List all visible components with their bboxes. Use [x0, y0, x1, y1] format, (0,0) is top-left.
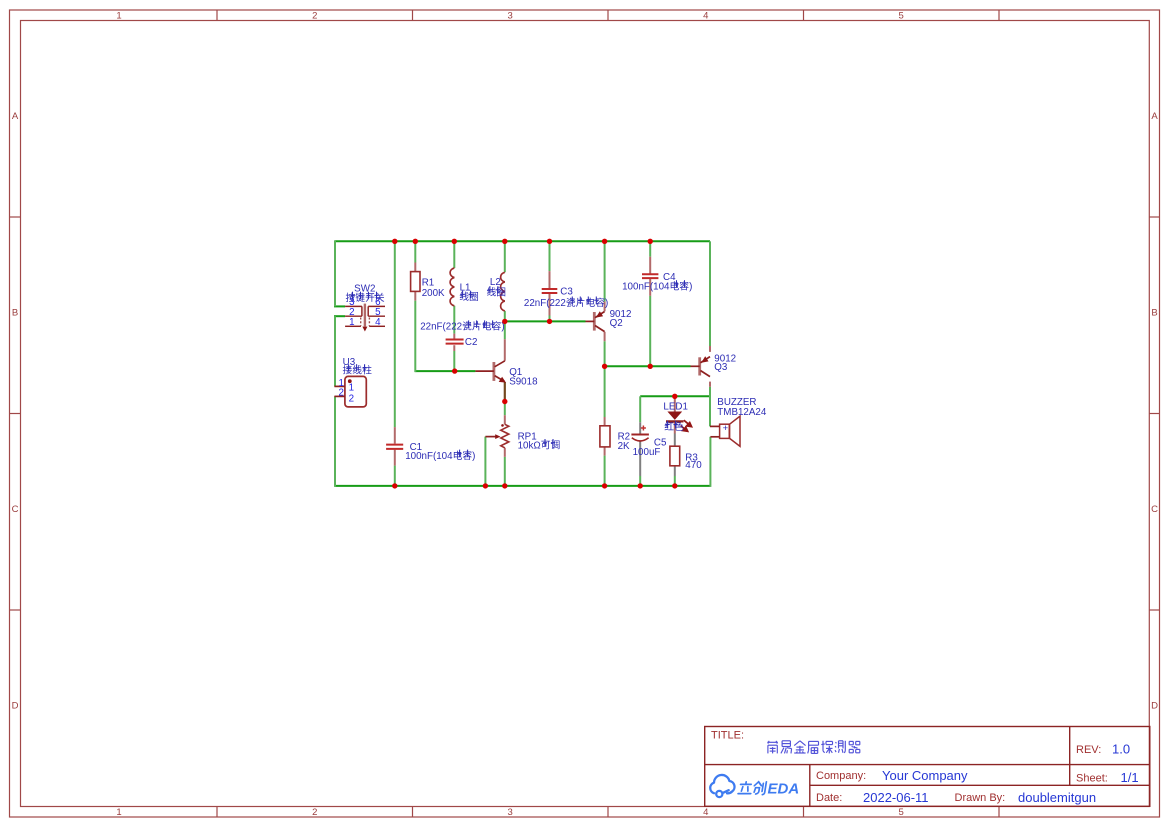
svg-text:TITLE:: TITLE: — [711, 730, 744, 742]
svg-text:C2: C2 — [465, 337, 478, 348]
svg-text:A: A — [12, 111, 19, 122]
svg-text:S9018: S9018 — [509, 376, 538, 387]
svg-text:B: B — [12, 308, 18, 319]
potentiometer RP1 — [501, 424, 509, 448]
svg-text:Q2: Q2 — [610, 318, 623, 329]
capacitor C4 — [642, 274, 658, 278]
pin R2 top — [604, 417, 606, 426]
svg-text:Company:: Company: — [816, 770, 866, 782]
svg-text:Q3: Q3 — [714, 362, 728, 373]
node LED top — [672, 394, 677, 399]
wire C4 top — [649, 241, 651, 256]
pin Q3 collector — [709, 382, 711, 387]
pin Q2 collector — [604, 332, 606, 341]
svg-text:A: A — [1151, 111, 1158, 122]
svg-text:470: 470 — [685, 460, 702, 471]
wire C5 top — [639, 396, 641, 422]
svg-text:D: D — [1151, 701, 1158, 712]
pin C3 top — [549, 271, 551, 288]
inductor L1 — [450, 268, 454, 306]
wire SW2 pin3 stub — [334, 305, 345, 307]
node bottom rail C5 — [638, 483, 643, 488]
buzzer BUZZER TMB12A24 — [720, 416, 740, 446]
svg-text:3: 3 — [508, 807, 513, 818]
svg-text:doublemitgun: doublemitgun — [1018, 790, 1096, 805]
svg-text:1: 1 — [116, 807, 121, 818]
node L2 bottom — [502, 319, 507, 324]
svg-text:LED1: LED1 — [663, 402, 688, 413]
pin R1 top — [414, 263, 416, 272]
wire Q2 collector down — [604, 341, 606, 366]
pin C3 bottom — [549, 294, 551, 316]
pin C1 bottom — [394, 450, 396, 466]
svg-text:Sheet:: Sheet: — [1076, 773, 1108, 785]
resistor R3 — [670, 446, 680, 466]
node top rail C4 — [648, 239, 653, 244]
svg-text:200K: 200K — [422, 288, 445, 299]
wire right rail to Q3 — [709, 241, 711, 346]
terminal U3 — [345, 376, 366, 407]
svg-text:4: 4 — [703, 807, 708, 818]
node top rail L1 — [452, 239, 457, 244]
svg-text:+: + — [723, 423, 729, 434]
svg-text:2: 2 — [312, 807, 317, 818]
pin R1 bottom — [414, 291, 416, 300]
wire L2 bottom node — [504, 311, 506, 339]
svg-text:C: C — [1151, 504, 1158, 515]
svg-text:3: 3 — [508, 11, 513, 22]
node bottom rail C1 — [392, 483, 397, 488]
switch SW2 — [345, 306, 385, 326]
svg-text:2: 2 — [312, 11, 317, 22]
capacitor C2 — [446, 340, 464, 344]
LED LED1 — [667, 412, 682, 420]
inductor L2 — [501, 272, 505, 311]
wire L1 to C2 — [453, 306, 455, 334]
svg-text:5: 5 — [899, 11, 904, 22]
pin RP1 bottom — [504, 448, 506, 457]
wire C2 to base node — [453, 351, 455, 371]
pin C5 bottom gray — [639, 442, 641, 477]
node bottom rail R2 — [602, 483, 607, 488]
svg-text:1: 1 — [349, 317, 354, 328]
wire SW2 pin2 stub — [334, 315, 345, 317]
wire C3 bottom — [549, 316, 551, 322]
svg-text:100uF: 100uF — [633, 447, 661, 458]
node C3 bottom — [547, 319, 552, 324]
junction dots — [392, 239, 677, 489]
wire R2 bottom — [604, 456, 606, 486]
node bottom rail R3 — [672, 483, 677, 488]
capacitor C1 — [386, 445, 403, 449]
wire left rail upper — [334, 240, 336, 306]
title block — [705, 727, 1150, 807]
svg-text:2: 2 — [349, 393, 354, 404]
svg-text:1/1: 1/1 — [1121, 770, 1139, 785]
pin Q3 emitter — [709, 346, 711, 352]
node Q1 base — [452, 368, 457, 373]
wire U3 to bottom rail — [334, 396, 336, 487]
wire L2 top — [504, 241, 506, 272]
wire bottom rail — [335, 485, 710, 487]
pin C4 top — [649, 257, 651, 274]
svg-text:22nF(222瓷片电容): 22nF(222瓷片电容) — [524, 296, 608, 309]
wire SW2 to U3 — [334, 316, 336, 386]
svg-text:R1: R1 — [422, 278, 435, 289]
svg-text:C: C — [12, 504, 19, 515]
wire Q1 base — [415, 370, 475, 372]
pin C2 top — [453, 334, 455, 340]
wire RP1 to bottom rail — [504, 457, 506, 486]
node top rail L2 — [502, 239, 507, 244]
wire Q2 collector to Q3 base — [605, 365, 691, 367]
CJK glyph densify strokes — [347, 280, 687, 457]
wire C1 branch upper — [394, 241, 396, 427]
pin LED1 cathode to R3 (gray) — [640, 422, 675, 476]
node top rail C1 — [392, 239, 397, 244]
node top rail Q2 — [602, 239, 607, 244]
svg-text:TMB12A24: TMB12A24 — [717, 407, 767, 418]
wire Q1 emitter to RP1 — [504, 402, 506, 415]
svg-text:D: D — [12, 701, 19, 712]
svg-text:B: B — [1151, 308, 1157, 319]
wire C1 branch lower — [394, 466, 396, 486]
svg-text:1.0: 1.0 — [1112, 742, 1130, 757]
transistor Q2 9012 — [586, 311, 605, 331]
pin Q1 collector — [504, 339, 506, 361]
wire R3 bottom — [674, 476, 676, 486]
node top rail C3 — [547, 239, 552, 244]
node bottom rail RP1 — [502, 483, 507, 488]
svg-text:5: 5 — [899, 807, 904, 818]
svg-text:Date:: Date: — [816, 792, 842, 804]
svg-text:Your Company: Your Company — [882, 768, 968, 783]
capacitor C3 — [542, 289, 558, 293]
wire Q2 emitter top — [604, 241, 606, 301]
node bottom rail wiper — [483, 483, 488, 488]
transistor Q1 S9018 — [475, 361, 506, 383]
pin C4 bottom — [649, 279, 651, 296]
svg-text:EDA: EDA — [768, 781, 800, 798]
EasyEDA logo — [710, 775, 734, 797]
pin R3 bottom gray — [674, 466, 676, 476]
pin R2 bottom — [604, 447, 606, 456]
resistor R2 — [600, 426, 610, 447]
svg-text:L2: L2 — [490, 277, 501, 288]
svg-text:REV:: REV: — [1076, 744, 1101, 756]
resistor R1 — [411, 272, 420, 292]
svg-text:1: 1 — [349, 383, 354, 394]
svg-text:4: 4 — [375, 317, 381, 328]
pin Q2 emitter — [604, 302, 606, 312]
svg-text:4: 4 — [703, 11, 708, 22]
wire C5 bottom — [639, 476, 641, 486]
wire RP1 wiper down — [484, 437, 486, 486]
pin C2 bottom — [453, 345, 455, 351]
pin C1 top — [394, 427, 396, 444]
pin RP1 top — [504, 415, 506, 424]
wire R1 bottom to base node — [414, 301, 416, 373]
title text 简易金属探测器 (drawn) — [767, 741, 860, 754]
capacitor C5 electrolytic — [631, 434, 649, 436]
wire C3 top — [549, 241, 551, 271]
svg-text:10kΩ可调: 10kΩ可调 — [518, 439, 561, 451]
wire top rail — [335, 240, 710, 242]
wire buzzer to bottom rail — [709, 437, 711, 487]
svg-text:Drawn By:: Drawn By: — [955, 792, 1006, 804]
svg-text:100nF(104电容): 100nF(104电容) — [405, 449, 475, 462]
node Q2 collector — [602, 364, 607, 369]
wire C4 bottom — [649, 296, 651, 367]
svg-text:接线柱: 接线柱 — [343, 364, 373, 377]
wire R2 top — [604, 366, 606, 417]
pin Q1 emitter lead brown — [504, 382, 506, 400]
svg-text:100nF(104电容): 100nF(104电容) — [622, 280, 692, 293]
svg-text:1: 1 — [116, 11, 121, 22]
wire L1 top — [453, 241, 455, 268]
svg-text:2022-06-11: 2022-06-11 — [863, 790, 929, 805]
node C4 bottom — [648, 364, 653, 369]
svg-text:C3: C3 — [560, 287, 573, 298]
wire Q3 collector to buzzer — [709, 387, 711, 427]
transistor Q3 9012 — [691, 356, 711, 376]
pin C5 top gray — [639, 422, 641, 434]
svg-text:22nF(222瓷片电容): 22nF(222瓷片电容) — [420, 320, 504, 333]
wire R1 top — [414, 241, 416, 262]
wire C5 LED buzzer node — [640, 395, 710, 397]
svg-text:2K: 2K — [618, 441, 630, 452]
node top rail R1 — [413, 239, 418, 244]
pin LED1 bottom upper part — [674, 421, 676, 433]
svg-text:2: 2 — [338, 387, 343, 398]
pin LED1 top — [674, 396, 676, 412]
wire L2 to Q2 base — [505, 320, 586, 322]
node Q1 emitter — [502, 399, 507, 404]
